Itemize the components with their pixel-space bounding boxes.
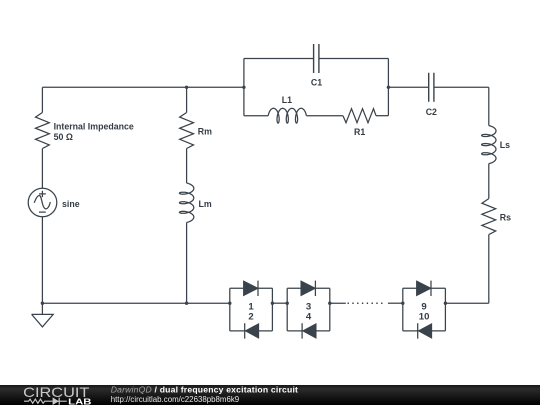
node box3 right [444, 302, 447, 305]
svg-text:Rm: Rm [198, 127, 212, 137]
wire right vertical upper [488, 87, 490, 125]
svg-text:2: 2 [248, 311, 253, 322]
wire node to C2 [388, 86, 428, 88]
CircuitLab logo [23, 383, 91, 405]
svg-text:sine: sine [62, 199, 80, 209]
wire bottom left horizontal [42, 302, 229, 304]
capacitor C1 [314, 44, 319, 73]
svg-text:Lm: Lm [199, 199, 212, 209]
voltage source V1 sine [28, 188, 57, 217]
svg-text:Ls: Ls [500, 140, 510, 150]
wire L1 to R1 [306, 115, 343, 117]
wire left vertical lower [41, 217, 43, 303]
inductor Ls [482, 126, 496, 164]
wire parallel-branch left vertical [243, 59, 245, 116]
diode D3 (top, pointing right) [301, 281, 315, 296]
inductor Lm [179, 183, 193, 223]
wire between diode box 1 and 2 [272, 302, 287, 304]
wire bottom right horizontal [445, 302, 488, 304]
wire C1 right lead [319, 58, 388, 60]
node box1 left [228, 302, 231, 305]
svg-text:C2: C2 [426, 107, 437, 117]
capacitor C2 [429, 73, 434, 102]
wire left vertical upper [41, 87, 43, 112]
wire C1 left lead [244, 58, 314, 60]
node parallel-branch left [242, 86, 245, 89]
wire parallel-branch right vertical [387, 59, 389, 116]
svg-text:Rs: Rs [500, 212, 511, 222]
wire Rm branch top stub [186, 87, 188, 112]
node box3 left [401, 302, 404, 305]
resistor R1 [343, 109, 376, 123]
wire top horizontal net [42, 86, 244, 88]
diode D10 (bottom, pointing left) [418, 323, 432, 338]
resistor Internal Impedance 50 ohm [36, 113, 50, 149]
wire dotted continuation to diode box 9/10 [388, 302, 403, 304]
svg-text:L1: L1 [282, 95, 292, 105]
diode pair box 1/2 [230, 288, 273, 331]
node ground junction [41, 302, 44, 305]
svg-text:R1: R1 [354, 127, 365, 137]
resistor Rm [180, 113, 194, 149]
diode pair box 3/4 [287, 288, 330, 331]
wire between Rm and Lm [186, 149, 188, 184]
svg-text:50 Ω: 50 Ω [54, 132, 73, 142]
svg-text:4: 4 [306, 311, 312, 322]
diode pair box 9/10 [403, 288, 446, 331]
node box1 right [271, 302, 274, 305]
wire left vertical mid [41, 149, 43, 189]
wire R1 right lead [376, 115, 388, 117]
resistor Rs [482, 199, 496, 235]
ground [32, 303, 54, 327]
inductor L1 [268, 108, 306, 123]
node box2 right [328, 302, 331, 305]
svg-text:10: 10 [419, 311, 430, 322]
wire diode box 2 to dotted continuation [330, 302, 346, 304]
wire Ls to Rs [488, 164, 490, 199]
svg-text:http://circuitlab.com/c22638pb: http://circuitlab.com/c22638pb8m6k9 [111, 395, 240, 404]
svg-text:DarwinQD / dual frequency exci: DarwinQD / dual frequency excitation cir… [111, 385, 298, 395]
node Lm/bottom net [185, 302, 188, 305]
diode D2 (bottom, pointing left) [245, 323, 259, 338]
wire right vertical lower [488, 235, 490, 304]
diode D9 (top, pointing right) [417, 281, 431, 296]
wire dotted continuation (ellipsis) [348, 302, 384, 304]
wire C2 to right vertical [434, 86, 489, 88]
svg-text:Internal Impedance: Internal Impedance [54, 121, 134, 131]
wire Lm to bottom net [186, 223, 188, 304]
node Rm/top net [185, 86, 188, 89]
footer bar [0, 385, 540, 405]
wire L1 left lead [244, 115, 268, 117]
svg-text:LAB: LAB [68, 396, 91, 405]
node box2 left [286, 302, 289, 305]
diode D1 (top, pointing right) [244, 281, 258, 296]
diode D4 (bottom, pointing left) [302, 323, 316, 338]
svg-text:C1: C1 [311, 77, 322, 87]
node parallel-branch right [387, 86, 390, 89]
